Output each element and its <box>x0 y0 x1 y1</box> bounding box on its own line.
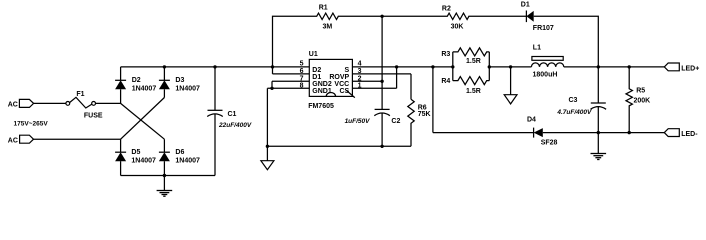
svg-text:1.5R: 1.5R <box>466 58 481 65</box>
svg-text:GND1: GND1 <box>312 88 332 95</box>
svg-text:22uF/400V: 22uF/400V <box>218 122 252 129</box>
svg-text:R5: R5 <box>636 88 645 95</box>
svg-text:3M: 3M <box>323 24 333 31</box>
svg-text:5: 5 <box>300 61 304 68</box>
svg-text:R4: R4 <box>441 78 450 85</box>
svg-text:LED-: LED- <box>681 131 698 138</box>
svg-text:2: 2 <box>358 75 362 82</box>
svg-text:LED+: LED+ <box>681 66 699 73</box>
svg-text:U1: U1 <box>309 51 318 58</box>
svg-text:GND2: GND2 <box>312 81 332 88</box>
svg-text:AC: AC <box>8 137 18 144</box>
svg-text:S: S <box>345 67 350 74</box>
svg-text:1N4007: 1N4007 <box>175 85 200 92</box>
svg-text:30K: 30K <box>451 24 464 31</box>
svg-text:AC: AC <box>8 101 18 108</box>
svg-text:FUSE: FUSE <box>84 113 103 120</box>
svg-text:CS: CS <box>339 88 349 95</box>
svg-text:D2: D2 <box>312 67 321 74</box>
svg-text:1.5R: 1.5R <box>466 88 481 95</box>
svg-text:D4: D4 <box>527 117 536 124</box>
svg-text:C3: C3 <box>569 97 578 104</box>
svg-text:D6: D6 <box>175 149 184 156</box>
svg-text:D2: D2 <box>132 77 141 84</box>
svg-text:7: 7 <box>300 75 304 82</box>
svg-text:75K: 75K <box>418 111 431 118</box>
svg-text:R2: R2 <box>442 5 451 12</box>
svg-text:F1: F1 <box>76 91 84 98</box>
svg-text:1800uH: 1800uH <box>533 72 558 79</box>
svg-text:8: 8 <box>300 82 304 89</box>
svg-text:4.7uF/400V: 4.7uF/400V <box>556 109 592 116</box>
svg-text:D1: D1 <box>521 2 530 9</box>
svg-text:6: 6 <box>300 68 304 75</box>
svg-text:FM7605: FM7605 <box>308 103 334 110</box>
svg-text:SF28: SF28 <box>541 140 558 147</box>
svg-text:D3: D3 <box>175 77 184 84</box>
svg-text:1N4007: 1N4007 <box>132 85 157 92</box>
svg-text:1N4007: 1N4007 <box>131 158 156 165</box>
svg-text:VCC: VCC <box>334 81 349 88</box>
svg-text:C1: C1 <box>228 111 237 118</box>
svg-text:175V~265V: 175V~265V <box>14 121 49 128</box>
svg-text:1: 1 <box>358 82 362 89</box>
svg-text:1N4007: 1N4007 <box>175 158 200 165</box>
svg-text:C2: C2 <box>391 118 400 125</box>
svg-text:L1: L1 <box>533 44 541 51</box>
svg-text:D5: D5 <box>131 149 140 156</box>
svg-text:3: 3 <box>358 68 362 75</box>
svg-text:1uF/50V: 1uF/50V <box>345 118 371 125</box>
svg-text:R3: R3 <box>441 51 450 58</box>
svg-text:FR107: FR107 <box>533 25 554 32</box>
svg-text:200K: 200K <box>634 97 651 104</box>
svg-text:R1: R1 <box>319 5 328 12</box>
